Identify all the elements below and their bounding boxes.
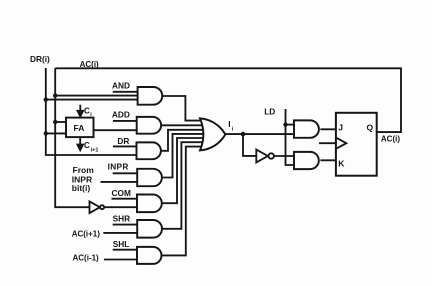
ADD gate — [137, 117, 161, 134]
junction dot DR rail / FA input — [44, 131, 48, 135]
svg-text:DR: DR — [117, 136, 129, 146]
svg-text:Q: Q — [367, 123, 374, 133]
svg-text:ADD: ADD — [112, 110, 130, 120]
svg-text:AC(i+1): AC(i+1) — [72, 230, 101, 239]
carry-out arrow from FA — [77, 137, 83, 150]
wire COM control input — [112, 198, 138, 200]
SHL gate — [137, 247, 162, 264]
wire SHL control input — [113, 249, 137, 251]
wire ADD gate output to OR input 2 — [161, 124, 204, 126]
wire LD branch to J AND gate — [286, 124, 295, 126]
wire AND control input — [113, 91, 138, 93]
svg-text:I: I — [228, 119, 230, 129]
svg-text:COM: COM — [112, 188, 131, 198]
wire SHL data input from AC(i-1) — [104, 259, 137, 261]
clock triangle inside flip-flop — [336, 138, 346, 149]
svg-text:FA: FA — [74, 123, 85, 133]
wire J AND output to J input — [320, 128, 336, 130]
svg-text:i: i — [232, 127, 234, 133]
wire AND gate output to OR input 1 — [162, 96, 204, 121]
wire FA sum output to ADD gate — [94, 129, 137, 131]
wire Ii branch to inverter — [243, 134, 256, 156]
wire SHR data input from AC(i+1) — [103, 232, 137, 234]
svg-text:bit(i): bit(i) — [72, 183, 91, 193]
OR gate (8-input) — [200, 118, 225, 150]
JK flip-flop box — [336, 113, 377, 176]
AND gate — [138, 87, 163, 105]
svg-text:SHL: SHL — [113, 239, 130, 249]
svg-text:AND: AND — [112, 80, 130, 90]
wire COM gate output to OR input 5 — [161, 138, 204, 203]
wire AC(i) rail (vertical, ends into COM inverter input) — [55, 68, 89, 207]
carry-in arrow into FA — [78, 105, 84, 117]
svg-text:INPR: INPR — [108, 162, 129, 172]
svg-text:AC(i): AC(i) — [381, 135, 400, 144]
svg-text:C: C — [84, 141, 90, 150]
inverter for COM input (NOT gate) — [90, 201, 105, 213]
wire INPR gate output to OR input 4 — [162, 134, 204, 178]
wire inverter output to K AND gate — [274, 155, 294, 157]
wire FA input from DR rail — [46, 132, 66, 134]
svg-text:LD: LD — [264, 107, 275, 117]
wire OR output Ii to LD AND gate — [225, 133, 294, 135]
full adder FA box — [66, 118, 94, 138]
svg-text:K: K — [338, 159, 345, 169]
SHR gate — [137, 220, 162, 238]
wire INPR control input — [113, 172, 138, 174]
wire K AND output to K input — [320, 159, 336, 161]
svg-text:J: J — [338, 123, 343, 133]
inverter before K AND gate (NOT gate) — [256, 150, 274, 163]
junction dot AC rail / AND input — [53, 93, 57, 97]
svg-text:SHR: SHR — [113, 213, 131, 223]
K AND gate — [294, 152, 319, 169]
junction dot AC rail / FA input — [53, 120, 57, 124]
wire DR control input — [113, 145, 137, 147]
junction dot Ii node — [241, 132, 246, 137]
wire COM inverter output to COM gate — [105, 206, 138, 208]
svg-text:i+1: i+1 — [91, 147, 99, 153]
wire AND gate input from DR rail — [46, 99, 138, 101]
wire DR gate output to OR input 3 — [161, 130, 204, 151]
COM gate — [137, 195, 162, 213]
wire DR(i) rail (vertical, ends into DR gate data input) — [46, 68, 137, 155]
svg-text:C: C — [84, 107, 90, 116]
wire clock input stub — [319, 142, 336, 144]
junction dot DR rail / AND input — [44, 97, 48, 101]
wire LD control (vertical, feeds both AND gates) — [286, 109, 295, 165]
wire SHL gate output to OR input 7 — [162, 147, 204, 256]
INPR gate — [137, 169, 162, 186]
wire FA input from AC rail — [55, 121, 66, 123]
J AND gate — [294, 120, 319, 137]
svg-text:DR(i): DR(i) — [30, 54, 50, 64]
wire ADD control input — [113, 120, 137, 122]
DR gate — [137, 142, 161, 159]
junction dot LD / J AND input — [283, 122, 287, 126]
wire AC(i) feedback from Q output (top horizontal) — [55, 68, 401, 132]
wire SHR gate output to OR input 6 — [161, 142, 204, 229]
wire INPR data input from INPR bit(i) — [101, 181, 138, 183]
wire SHR control input — [113, 224, 138, 226]
svg-text:AC(i-1): AC(i-1) — [73, 254, 100, 263]
wire AND gate input from AC rail — [55, 95, 137, 97]
